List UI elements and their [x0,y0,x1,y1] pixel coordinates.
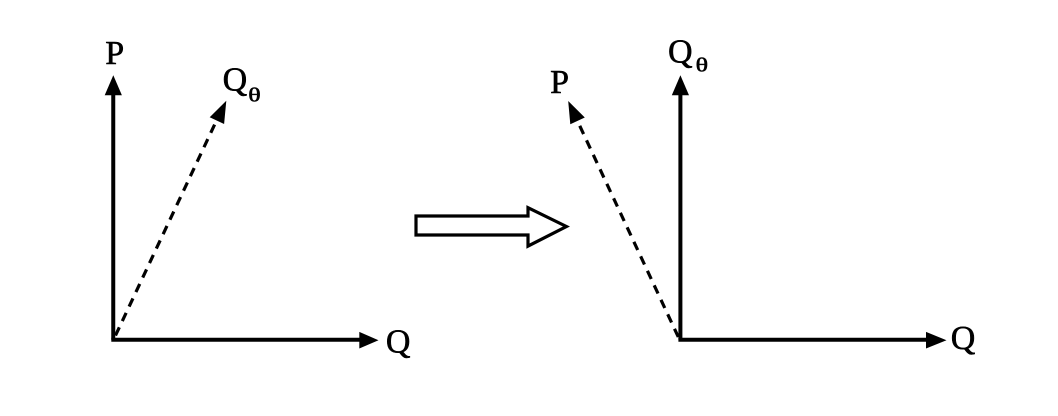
right dashed vector arrowhead [568,101,585,124]
svg-text:P: P [105,35,124,72]
svg-text:Q: Q [668,34,693,71]
right horizontal axis arrowhead [926,332,947,349]
left vertical axis P (shaft) [111,93,115,340]
left dashed vector arrowhead [210,101,227,124]
block arrow (hollow, pointing right) [416,208,566,246]
right dashed vector shaft [578,121,679,337]
left vertical axis arrowhead [105,75,122,95]
right vertical axis Q-theta (shaft) [678,93,682,340]
svg-text:θ: θ [696,54,708,76]
left dashed vector shaft [116,120,218,336]
svg-text:Q: Q [951,320,976,357]
right horizontal axis Q (shaft) [678,338,928,342]
svg-text:Q: Q [223,61,248,98]
left horizontal axis arrowhead [359,332,378,349]
left horizontal axis Q (shaft) [111,338,361,342]
svg-text:θ: θ [248,84,260,106]
svg-text:P: P [550,64,569,101]
svg-text:Q: Q [386,323,411,360]
right vertical axis arrowhead [672,75,689,95]
